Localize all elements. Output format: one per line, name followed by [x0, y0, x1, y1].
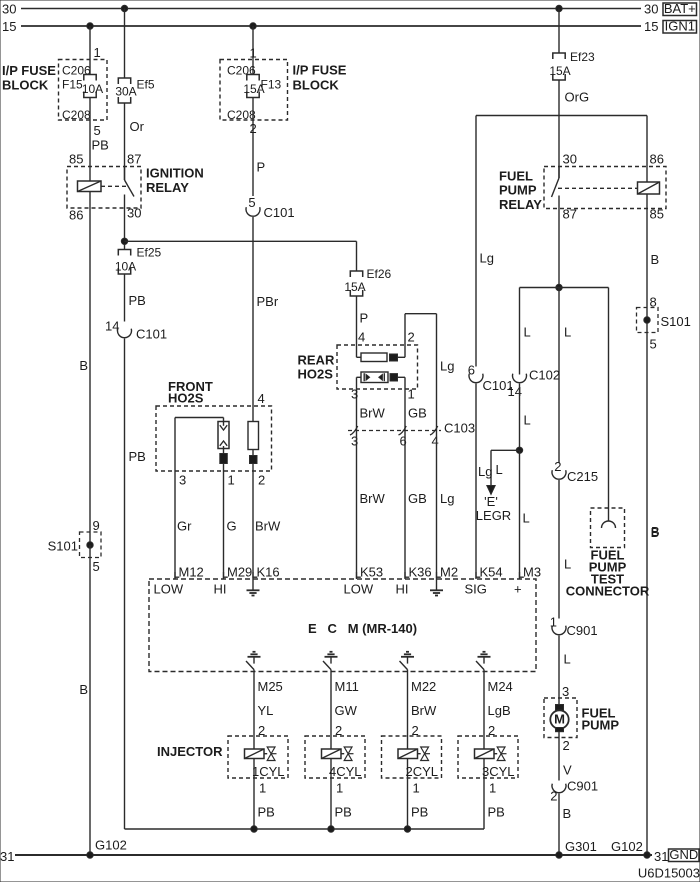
- svg-text:L: L: [496, 462, 503, 477]
- wire P Ef26 to rear HO2S pin4: [357, 296, 369, 357]
- svg-text:SIG: SIG: [465, 582, 487, 597]
- wire rear HO2S pin1 GB to C103 pin6: [405, 377, 427, 430]
- wire B relay 85 to S101 (right): [647, 194, 659, 855]
- label INJECTOR: [157, 744, 223, 759]
- svg-text:PB: PB: [129, 293, 146, 308]
- splice S101 (right): [637, 295, 691, 352]
- junction on bus 15 at F13 feed: [250, 23, 256, 29]
- splice S101 (left): [48, 518, 101, 574]
- wire Or Ef5 to ignition relay 87: [125, 103, 145, 180]
- rear HO2S heater element: [357, 353, 406, 362]
- pin K54 entry: [476, 565, 503, 580]
- wire B S101 to G102 (right): [651, 525, 660, 540]
- svg-text:U6D15003: U6D15003: [638, 866, 700, 881]
- svg-text:IGN1: IGN1: [665, 18, 695, 33]
- pin M3 entry: [520, 565, 542, 580]
- svg-text:OrG: OrG: [565, 90, 590, 105]
- svg-text:L: L: [564, 557, 571, 572]
- connector C901 pin2: [550, 779, 598, 804]
- svg-text:Gr: Gr: [177, 519, 192, 534]
- wire Lg rear HO2S pin2 to C103 pin4: [437, 314, 455, 431]
- svg-text:S101: S101: [48, 539, 78, 554]
- pin M12 entry: [175, 565, 204, 580]
- junction PB rail 1CYL: [251, 826, 257, 832]
- svg-text:RELAY: RELAY: [499, 197, 542, 212]
- svg-text:BrW: BrW: [411, 703, 437, 718]
- junction PB rail 2CYL: [404, 826, 410, 832]
- svg-text:B: B: [651, 524, 660, 539]
- wire Lg link to C101 pin6: [468, 116, 494, 378]
- svg-text:LOW: LOW: [344, 582, 374, 597]
- op-amp ECM (MR-140) housing: [149, 579, 536, 672]
- svg-text:M22: M22: [411, 679, 436, 694]
- svg-text:PUMP: PUMP: [582, 718, 620, 733]
- svg-text:4: 4: [258, 391, 265, 406]
- pin M11: [335, 679, 359, 694]
- svg-text:GW: GW: [335, 703, 358, 718]
- wire PB Ef25 to C101 pin14: [105, 274, 146, 334]
- svg-text:L: L: [524, 325, 531, 340]
- svg-text:Lg: Lg: [480, 251, 494, 266]
- relay fuel pump: housing: [499, 152, 666, 222]
- fuse F13 15A: [243, 75, 264, 98]
- junction on bus 30 at Ef5 feed: [121, 5, 127, 11]
- label B right branch: [651, 524, 660, 539]
- svg-text:M2: M2: [440, 565, 458, 580]
- svg-text:C208: C208: [62, 108, 91, 122]
- svg-text:M11: M11: [335, 679, 359, 694]
- fuel pump motor M: [544, 698, 619, 738]
- svg-text:HO2S: HO2S: [298, 367, 334, 382]
- svg-text:B: B: [651, 252, 660, 267]
- svg-text:2: 2: [554, 459, 561, 474]
- svg-text:LOW: LOW: [154, 582, 184, 597]
- injector 3CYL: [458, 736, 518, 779]
- wire rear HO2S pin2 up and over: [405, 314, 437, 358]
- svg-text:FUEL: FUEL: [499, 169, 533, 184]
- wire bus30 to fuse Ef5: [124, 9, 126, 79]
- svg-text:PB: PB: [488, 805, 505, 820]
- wire GW 4CYL driver to injector: [331, 670, 358, 738]
- relay ignition: coil-switch dashed link: [101, 185, 128, 187]
- injector 1CYL: [228, 736, 288, 779]
- junction on bus 15 at F15 feed: [87, 23, 93, 29]
- svg-text:C206: C206: [62, 64, 91, 78]
- svg-text:30A: 30A: [115, 85, 136, 99]
- fuel pump test connector: [566, 508, 650, 599]
- junction L split: [520, 284, 609, 290]
- svg-text:Lg: Lg: [440, 359, 454, 374]
- ECM injector driver M22: [400, 652, 415, 670]
- wire V fuel pump pin2 to C901: [559, 732, 572, 781]
- svg-text:15A: 15A: [344, 280, 365, 294]
- wire F15 pin5 PB to ignition relay 85: [90, 98, 109, 182]
- svg-text:PB: PB: [258, 805, 275, 820]
- wire L junction to C215: [559, 288, 571, 464]
- wire bus 15 IGN1: [2, 19, 658, 34]
- ECM injector driver M24: [476, 652, 491, 670]
- wire bus 30 BAT+: [2, 2, 658, 17]
- svg-text:G102: G102: [611, 839, 643, 854]
- svg-text:30: 30: [563, 152, 577, 167]
- svg-text:K54: K54: [480, 565, 503, 580]
- wire LgB 3CYL driver to injector: [484, 670, 511, 738]
- svg-text:PB: PB: [411, 805, 428, 820]
- wire F13 pin2 P to C101: [248, 98, 265, 211]
- svg-text:85: 85: [69, 152, 83, 167]
- svg-text:C215: C215: [567, 469, 598, 484]
- ECM injector driver M11: [323, 652, 338, 670]
- wire PB injector 3CYL pin1 to supply rail: [484, 778, 505, 829]
- wire BrW 2CYL driver to injector: [408, 670, 438, 738]
- svg-text:5: 5: [94, 123, 101, 138]
- svg-text:C101: C101: [483, 378, 514, 393]
- svg-text:V: V: [563, 763, 572, 778]
- svg-text:3CYL: 3CYL: [482, 764, 515, 779]
- svg-text:5: 5: [650, 337, 657, 352]
- svg-text:E C M (MR-140): E C M (MR-140): [308, 621, 417, 636]
- label U6D15003: [638, 866, 700, 881]
- svg-text:C101: C101: [136, 327, 167, 342]
- wire L to C102 pin14: [520, 288, 531, 375]
- ground inside ECM at M2: [430, 579, 443, 596]
- svg-text:4CYL: 4CYL: [329, 764, 362, 779]
- wire PB injector supply rail: [125, 828, 485, 830]
- arrow to EGR circuit: [476, 450, 511, 523]
- svg-text:'E': 'E': [484, 494, 498, 509]
- svg-text:I/P FUSE: I/P FUSE: [2, 63, 56, 78]
- injector 4CYL: [305, 736, 365, 779]
- svg-text:I/P FUSE: I/P FUSE: [293, 63, 347, 78]
- svg-text:C901: C901: [567, 623, 598, 638]
- svg-text:8: 8: [650, 295, 657, 310]
- wire link Lg / relay86 / B top rail: [476, 115, 647, 117]
- pin M22: [411, 679, 436, 694]
- svg-text:PBr: PBr: [257, 294, 279, 309]
- svg-text:IGNITION: IGNITION: [146, 166, 204, 181]
- svg-text:F15: F15: [62, 78, 83, 92]
- svg-text:1: 1: [489, 781, 496, 796]
- wire BrW C103 to ECM K53: [357, 431, 386, 580]
- fuse Ef25 10A: [115, 246, 162, 275]
- svg-text:1CYL: 1CYL: [252, 764, 285, 779]
- wire Gr front HO2S pin3 to ECM M12: [175, 418, 192, 580]
- wire L to ECM M3: [520, 450, 530, 579]
- wire PB injector 1CYL pin1 to supply rail: [254, 778, 275, 829]
- svg-text:PB: PB: [335, 805, 352, 820]
- svg-text:L: L: [523, 511, 530, 526]
- svg-text:2: 2: [550, 789, 557, 804]
- wire YL 1CYL driver to injector: [254, 670, 273, 738]
- svg-text:1: 1: [94, 45, 101, 60]
- svg-text:1: 1: [250, 46, 257, 61]
- relay fuel pump: switch 30-87: [552, 167, 560, 198]
- svg-text:LEGR: LEGR: [476, 508, 511, 523]
- svg-text:L: L: [564, 325, 571, 340]
- svg-text:K36: K36: [409, 565, 432, 580]
- relay ignition: switch 87-30: [125, 167, 135, 197]
- front HO2S heater element: [248, 422, 259, 464]
- pin M24: [488, 679, 513, 694]
- front HO2S housing: [156, 379, 272, 471]
- fuse Ef26 15A: [344, 241, 391, 296]
- svg-text:LgB: LgB: [488, 703, 511, 718]
- svg-text:85: 85: [650, 207, 664, 222]
- svg-text:M: M: [554, 712, 565, 727]
- svg-text:S101: S101: [661, 314, 691, 329]
- I/P fuse block (left): [2, 60, 107, 123]
- wire PB C101 to injector supply rail: [125, 339, 146, 830]
- connector C101 pin5: [246, 205, 295, 220]
- svg-text:Lg: Lg: [440, 491, 454, 506]
- svg-text:31: 31: [654, 849, 668, 864]
- svg-text:GND: GND: [669, 847, 698, 862]
- svg-text:PB: PB: [92, 138, 109, 153]
- junction PB rail 4CYL: [328, 826, 334, 832]
- rear HO2S housing: [298, 345, 418, 389]
- wire pin1 to fuse F13: [250, 26, 257, 75]
- svg-text:PB: PB: [129, 449, 146, 464]
- wire B S101 to G102: [79, 545, 90, 855]
- svg-text:HI: HI: [214, 582, 227, 597]
- wire PB injector 2CYL pin1 to supply rail: [408, 778, 429, 829]
- svg-text:4: 4: [358, 330, 365, 345]
- svg-text:2: 2: [408, 330, 415, 345]
- svg-text:3: 3: [562, 684, 569, 699]
- wire Lg C101 to ECM K54: [476, 384, 492, 580]
- wire PBr C101 to front HO2S pin4: [253, 217, 279, 579]
- relay ignition: coil 85-86: [78, 181, 102, 192]
- svg-text:M25: M25: [258, 679, 283, 694]
- svg-text:2: 2: [563, 738, 570, 753]
- svg-text:86: 86: [650, 152, 664, 167]
- wire ignition relay 30 output: [124, 195, 126, 250]
- relay fuel pump: coil-switch dashed link: [558, 187, 638, 189]
- svg-text:GB: GB: [408, 406, 427, 421]
- svg-text:30: 30: [2, 2, 16, 17]
- svg-text:C206: C206: [227, 64, 256, 78]
- wire G front HO2S pin1 to ECM M29: [227, 473, 237, 534]
- wire L C215 to C901: [559, 480, 571, 619]
- svg-text:INJECTOR: INJECTOR: [157, 744, 223, 759]
- pin M2 entry: [437, 565, 459, 580]
- svg-text:1: 1: [336, 781, 343, 796]
- svg-text:15A: 15A: [549, 64, 570, 78]
- svg-text:C102: C102: [529, 368, 560, 383]
- svg-text:5: 5: [248, 195, 255, 210]
- wire pin1 to fuse F15: [90, 26, 101, 75]
- svg-text:31: 31: [0, 849, 14, 864]
- svg-text:30: 30: [127, 206, 141, 221]
- node GND: [669, 847, 700, 862]
- svg-text:P: P: [360, 311, 369, 326]
- connector C901 pin1: [550, 615, 598, 639]
- wire rear HO2S pin3 BrW to C103 pin3: [351, 377, 386, 430]
- svg-text:+: +: [514, 582, 522, 597]
- svg-text:C901: C901: [567, 779, 598, 794]
- svg-text:G102: G102: [95, 838, 127, 853]
- svg-text:1: 1: [259, 781, 266, 796]
- svg-text:REAR: REAR: [298, 353, 335, 368]
- wire Lg C103 to ECM M2: [437, 431, 455, 580]
- svg-text:M29: M29: [227, 565, 252, 580]
- svg-text:9: 9: [93, 518, 100, 533]
- wire L to fuel pump test connector: [608, 288, 610, 522]
- I/P fuse block (right): [220, 60, 347, 123]
- svg-text:YL: YL: [258, 703, 274, 718]
- svg-text:C103: C103: [444, 421, 475, 436]
- svg-text:CONNECTOR: CONNECTOR: [566, 584, 650, 599]
- front HO2S sensor element: [175, 418, 229, 580]
- svg-text:P: P: [257, 160, 266, 175]
- node IGN1: [663, 18, 697, 33]
- svg-text:5: 5: [93, 559, 100, 574]
- svg-text:G: G: [227, 519, 237, 534]
- connector C103: [348, 421, 475, 449]
- svg-text:86: 86: [69, 208, 83, 223]
- ground G102 (right): [611, 839, 650, 858]
- svg-text:G301: G301: [565, 839, 597, 854]
- svg-text:87: 87: [127, 152, 141, 167]
- svg-text:1: 1: [413, 781, 420, 796]
- svg-text:2: 2: [250, 121, 257, 136]
- svg-text:BrW: BrW: [360, 406, 386, 421]
- junction relay30 feed to Ef26: [121, 238, 127, 244]
- wire branch to fuse Ef26: [125, 240, 357, 242]
- ground G301: [556, 839, 597, 858]
- svg-text:15: 15: [644, 19, 658, 34]
- svg-text:1: 1: [550, 615, 557, 630]
- svg-text:87: 87: [563, 207, 577, 222]
- svg-text:B: B: [563, 806, 572, 821]
- svg-text:M24: M24: [488, 679, 513, 694]
- fuse Ef23 15A: [549, 50, 595, 80]
- connector C102 pin14: [508, 368, 561, 400]
- svg-text:HI: HI: [396, 582, 409, 597]
- wire L fuel pump relay 87 down: [558, 196, 560, 288]
- svg-text:L: L: [564, 652, 571, 667]
- wire GB C103 to ECM K36: [405, 431, 427, 580]
- svg-text:B: B: [79, 682, 88, 697]
- node BAT+: [663, 1, 697, 16]
- svg-text:K16: K16: [257, 565, 280, 580]
- svg-text:Or: Or: [130, 119, 145, 134]
- svg-text:BrW: BrW: [360, 491, 386, 506]
- pin M29 entry: [224, 565, 253, 580]
- svg-text:2: 2: [258, 473, 265, 488]
- svg-text:10A: 10A: [115, 260, 136, 274]
- wire PB injector 4CYL pin1 to supply rail: [331, 778, 352, 829]
- wire B C901 to G301: [559, 794, 571, 856]
- junction L to EGR: [491, 447, 523, 453]
- svg-text:C101: C101: [264, 205, 295, 220]
- wire bus 31 GND: [0, 849, 668, 864]
- svg-text:BLOCK: BLOCK: [293, 78, 340, 93]
- wire ignition relay 86 B to S101: [79, 192, 90, 546]
- fuse Ef5 30A: [115, 78, 155, 104]
- svg-text:15A: 15A: [243, 82, 264, 96]
- svg-text:10A: 10A: [82, 82, 103, 96]
- rear HO2S sensor element: [357, 372, 406, 383]
- svg-text:PUMP: PUMP: [499, 183, 537, 198]
- relay fuel pump: coil 86-85: [638, 116, 660, 195]
- svg-text:M3: M3: [523, 565, 541, 580]
- svg-text:Ef5: Ef5: [137, 78, 155, 92]
- svg-text:2CYL: 2CYL: [405, 764, 438, 779]
- connector C101 pin14: [118, 327, 168, 342]
- svg-text:BAT+: BAT+: [664, 1, 696, 16]
- svg-text:BrW: BrW: [255, 519, 281, 534]
- svg-text:K53: K53: [360, 565, 383, 580]
- svg-text:Ef26: Ef26: [367, 267, 392, 281]
- svg-text:BLOCK: BLOCK: [2, 78, 49, 93]
- svg-text:C208: C208: [227, 108, 256, 122]
- svg-text:3: 3: [351, 387, 358, 402]
- wire L C102 to EGR branch: [520, 384, 531, 451]
- wire OrG Ef23 to fuel pump relay 30: [559, 80, 589, 178]
- wire BrW front HO2S pin2 to ECM K16: [255, 473, 281, 534]
- pin M25: [258, 679, 283, 694]
- svg-text:15: 15: [2, 19, 16, 34]
- pin K36 entry: [405, 565, 432, 580]
- svg-text:1: 1: [228, 473, 235, 488]
- svg-text:Ef25: Ef25: [137, 246, 162, 260]
- pin K53 entry: [357, 565, 384, 580]
- svg-text:L: L: [524, 413, 531, 428]
- relay ignition: housing: [67, 152, 204, 223]
- svg-text:3: 3: [179, 473, 186, 488]
- svg-text:30: 30: [644, 2, 658, 17]
- svg-text:M12: M12: [179, 565, 204, 580]
- svg-text:RELAY: RELAY: [146, 180, 189, 195]
- svg-text:Ef23: Ef23: [570, 50, 595, 64]
- pin K16 entry: [253, 565, 280, 580]
- injector 2CYL: [382, 736, 442, 779]
- ground inside ECM at K16: [247, 579, 260, 596]
- ECM injector driver M25: [246, 652, 261, 670]
- junction on bus 30 at Ef23 feed: [556, 5, 562, 11]
- wire bus30 to fuse Ef23: [558, 9, 560, 54]
- connector C101 pin6: [469, 374, 514, 393]
- ECM internal labels: [154, 582, 522, 597]
- fuse F15 10A: [82, 75, 103, 98]
- svg-text:Lg: Lg: [478, 464, 492, 479]
- wire L C901 to fuel pump pin3: [559, 636, 571, 705]
- svg-text:HO2S: HO2S: [168, 391, 204, 406]
- svg-text:GB: GB: [408, 491, 427, 506]
- svg-text:B: B: [79, 358, 88, 373]
- connector C215 pin2: [552, 459, 598, 484]
- svg-text:1: 1: [408, 387, 415, 402]
- ground G102 (left): [87, 838, 127, 859]
- svg-text:4: 4: [432, 434, 439, 449]
